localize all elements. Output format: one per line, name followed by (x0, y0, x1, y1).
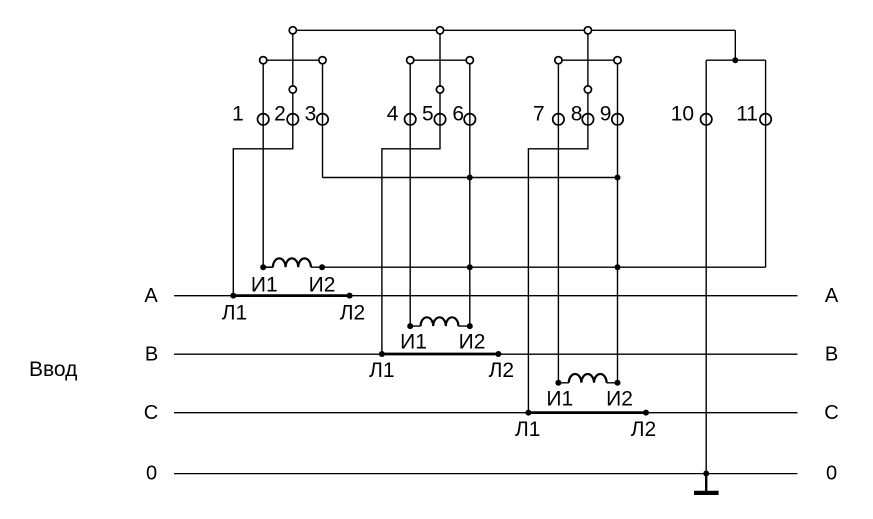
label terminal 3 (305, 103, 317, 126)
label terminal 1 (232, 103, 244, 126)
terminal 10 (701, 114, 712, 125)
label terminal 4 (387, 103, 399, 126)
inductor secondary coil TA3 (569, 374, 607, 383)
wire jumper link group 1 (263, 59, 322, 61)
wire terminal 9 to I2 of TA3 (617, 60, 619, 383)
node L1 TA2 (379, 351, 385, 357)
label phase A right (825, 285, 839, 307)
label I1 TA1 (251, 274, 278, 297)
wire I1 of TA1 to coil (263, 266, 273, 268)
svg-text:7: 7 (533, 103, 545, 126)
jumper circle group3 left (555, 57, 562, 64)
svg-text:8: 8 (571, 103, 583, 126)
svg-text:Л1: Л1 (515, 418, 540, 441)
svg-text:0: 0 (146, 463, 157, 485)
svg-text:A: A (825, 285, 839, 307)
wire common rail 2 (I-circuit common) (311, 266, 766, 268)
label L1 TA3 (515, 418, 540, 441)
wire jumper link group 3 (558, 59, 617, 61)
svg-text:B: B (145, 344, 158, 366)
jumper circle group2 left (407, 57, 414, 64)
terminal 3 (317, 114, 328, 125)
label phase B left (145, 344, 158, 366)
node I1 TA2 (407, 323, 413, 329)
label Vvod (29, 358, 77, 381)
jumper circle top group3 (584, 27, 591, 34)
jumper circle group2 right (466, 57, 473, 64)
ground (694, 474, 719, 493)
wire terminal 8 to L1 of TA3 (528, 30, 588, 412)
wire terminal 11 to common rail 2 (765, 60, 767, 267)
svg-text:3: 3 (305, 103, 317, 126)
wire terminal 10 to neutral and ground (705, 60, 707, 473)
wire terminal 1 to I1 of TA1 (262, 60, 264, 267)
svg-text:A: A (144, 285, 158, 307)
svg-text:5: 5 (422, 103, 434, 126)
svg-text:B: B (825, 344, 838, 366)
terminal 6 (464, 114, 475, 125)
svg-text:4: 4 (387, 103, 399, 126)
wire TA3 primary L1-L2 (thick) (528, 411, 646, 414)
wire link terminal 10 to terminal 11 (706, 59, 765, 61)
label I2 TA1 (309, 274, 336, 297)
wire phase B bus (174, 353, 798, 355)
wire I1-I2 line of TA2 (410, 325, 470, 327)
svg-text:2: 2 (274, 103, 286, 126)
jumper circle group1 left (260, 57, 267, 64)
wire top voltage bus (293, 29, 736, 31)
label terminal 11 (736, 103, 758, 126)
node rail2 x terminal 6 (467, 264, 473, 270)
label I2 TA2 (459, 331, 486, 354)
node L2 TA1 (347, 293, 353, 299)
svg-text:И1: И1 (400, 331, 427, 354)
label neutral 0 right (826, 463, 837, 485)
node I2 TA2 (467, 323, 473, 329)
svg-text:И1: И1 (546, 388, 573, 411)
terminal 9 (612, 114, 623, 125)
svg-text:6: 6 (452, 103, 464, 126)
label I1 TA3 (546, 388, 573, 411)
wire TA1 primary L1-L2 (thick) (233, 294, 349, 297)
label phase B right (825, 344, 838, 366)
svg-text:C: C (144, 402, 158, 424)
node I2 TA3 (615, 380, 621, 386)
label phase A left (144, 285, 158, 307)
svg-text:10: 10 (671, 103, 694, 126)
label L1 TA2 (369, 359, 394, 382)
wire neutral 0 bus (174, 473, 798, 475)
svg-text:9: 9 (600, 103, 612, 126)
wire I1-I2 line of TA3 (558, 382, 617, 384)
wire jumper link group 2 (410, 59, 470, 61)
terminal 4 (405, 114, 416, 125)
label terminal 7 (533, 103, 545, 126)
svg-text:Л1: Л1 (222, 302, 247, 325)
node L1 TA3 (525, 410, 531, 416)
terminal 5 (434, 114, 445, 125)
inductor secondary coil TA1 (273, 258, 311, 267)
label phase C left (144, 402, 158, 424)
label L2 TA1 (340, 302, 365, 325)
wire phase A bus (174, 295, 798, 297)
svg-text:И1: И1 (251, 274, 278, 297)
wire phase C bus (174, 412, 798, 414)
node neutral ground tap (703, 471, 709, 477)
wire common rail 1 (terminals 3-6-9) (323, 177, 618, 179)
jumper circle group3 right (614, 57, 621, 64)
node rail2 x terminal 9 (615, 264, 621, 270)
label I1 TA2 (400, 331, 427, 354)
terminal 8 (582, 114, 593, 125)
terminal 11 (760, 114, 771, 125)
wire top bus drop to terminals 10-11 link (734, 30, 736, 60)
label neutral 0 left (146, 463, 157, 485)
wire TA2 primary L1-L2 (thick) (382, 353, 499, 356)
svg-text:Л2: Л2 (340, 302, 365, 325)
wire terminal 4 to I1 of TA2 (409, 60, 411, 326)
wire terminal 6 to I2 of TA2 (469, 60, 471, 326)
terminal 2 (287, 114, 298, 125)
label L2 TA2 (489, 359, 514, 382)
svg-text:Л2: Л2 (489, 359, 514, 382)
svg-text:1: 1 (232, 103, 244, 126)
node L1 TA1 (230, 293, 236, 299)
svg-text:И2: И2 (459, 331, 486, 354)
node rail1 x terminal 9 (615, 175, 621, 181)
wire terminal 5 to L1 of TA2 (382, 30, 440, 354)
terminal 1 (258, 114, 269, 125)
label terminal 8 (571, 103, 583, 126)
jumper circle group2 mid (436, 86, 443, 93)
wire terminal 3 down to common rail 1 (322, 60, 324, 177)
svg-text:И2: И2 (309, 274, 336, 297)
wire terminal 7 to I1 of TA3 (557, 60, 559, 383)
label phase C right (824, 402, 838, 424)
wire terminal 2 to L1 of TA1 (233, 30, 292, 295)
svg-text:C: C (824, 402, 838, 424)
jumper circle group1 mid (289, 86, 296, 93)
label L1 TA1 (222, 302, 247, 325)
node I2 TA1 (319, 264, 325, 270)
label L2 TA3 (631, 418, 656, 441)
svg-text:11: 11 (736, 103, 758, 126)
label terminal 10 (671, 103, 694, 126)
label terminal 9 (600, 103, 612, 126)
svg-text:0: 0 (826, 463, 837, 485)
jumper circle group3 mid (584, 86, 591, 93)
node I1 TA3 (555, 380, 561, 386)
label terminal 5 (422, 103, 434, 126)
svg-text:Л1: Л1 (369, 359, 394, 382)
inductor secondary coil TA2 (421, 317, 459, 326)
node L2 TA3 (643, 410, 649, 416)
node I1 TA1 (260, 264, 266, 270)
label terminal 2 (274, 103, 286, 126)
svg-text:И2: И2 (606, 388, 633, 411)
label I2 TA3 (606, 388, 633, 411)
node junction top link 10-11 (732, 57, 738, 63)
jumper circle group1 right (319, 57, 326, 64)
node rail1 x terminal 6 (467, 175, 473, 181)
node L2 TA2 (495, 351, 501, 357)
svg-text:Л2: Л2 (631, 418, 656, 441)
jumper circle top group2 (436, 27, 443, 34)
terminal 7 (553, 114, 564, 125)
jumper circle top group1 (289, 27, 296, 34)
label terminal 6 (452, 103, 464, 126)
svg-text:Ввод: Ввод (29, 358, 77, 381)
